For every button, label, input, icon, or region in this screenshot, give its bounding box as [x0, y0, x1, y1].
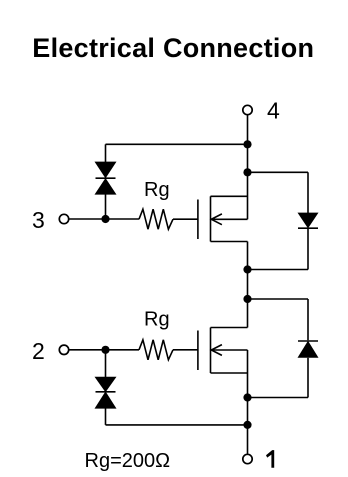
svg-text:4: 4: [267, 97, 280, 123]
wire: upper MOSFET source down through middle nodes to lower MOSFET drain: [247, 242, 249, 328]
svg-text:Rg: Rg: [144, 179, 170, 201]
wire: lower zener rail: [106, 424, 248, 426]
node: junction dot middle lower: [243, 295, 251, 303]
svg-text:2: 2: [32, 338, 45, 364]
wire: lower body-diode bottom rail: [248, 397, 309, 399]
node: junction dot at terminal-4 line / diode rail: [243, 168, 251, 176]
label pin 1: [266, 450, 274, 468]
source/bottom lead: [211, 372, 248, 374]
node: junction dot gate line 2 / zener stack: [101, 346, 109, 354]
node: junction dot lower source / diode rail: [243, 393, 251, 401]
wire: resistor to gate of lower MOSFET: [173, 349, 198, 351]
body lead with arrow: [211, 349, 247, 351]
MOSFET Q1 (upper): [198, 196, 248, 241]
node: junction dot at terminal-4 line / zener rail: [243, 140, 251, 148]
source/bottom lead: [211, 241, 248, 243]
node: junction dot lower zener rail: [243, 421, 251, 429]
wire: upper body-diode top rail: [248, 171, 309, 173]
wire: terminal 2 to gate resistor: [69, 349, 139, 351]
resistor Rg (upper): [139, 209, 173, 229]
svg-text:3: 3: [32, 207, 45, 233]
wire: lower MOSFET body/source down to terminal 1: [247, 350, 249, 454]
terminal 1: [243, 454, 252, 463]
drain/top lead: [211, 195, 248, 197]
wire: resistor to gate of upper MOSFET: [173, 218, 198, 220]
wire: upper body-diode bottom rail: [248, 269, 309, 271]
terminal 3: [59, 214, 68, 223]
terminal 2: [59, 345, 68, 354]
wire: upper gate-protection rail: [106, 143, 248, 145]
svg-text:Rg: Rg: [144, 309, 170, 331]
wire: terminal 4 down to upper MOSFET body junction: [247, 115, 249, 219]
body diode (upper): [298, 172, 319, 269]
resistor Rg (lower): [139, 340, 173, 360]
node: junction dot middle upper: [243, 265, 251, 273]
zener pair (upper gate protection): [95, 144, 117, 219]
svg-text:Electrical Connection: Electrical Connection: [32, 33, 314, 63]
wire: terminal 3 to gate resistor: [69, 218, 139, 220]
gate bar: [197, 331, 199, 371]
body diode (lower): [298, 299, 319, 398]
gate bar: [197, 200, 199, 240]
channel bar: [210, 196, 212, 241]
svg-text:Rg=200Ω: Rg=200Ω: [85, 450, 171, 472]
MOSFET Q2 (lower): [198, 328, 248, 374]
node: junction dot gate line 3 / zener stack: [101, 215, 109, 223]
body lead with arrow: [211, 218, 247, 220]
drain/top lead: [211, 327, 248, 329]
zener pair (lower gate protection): [95, 350, 117, 425]
wire: lower body-diode top rail: [248, 298, 309, 300]
channel bar: [210, 328, 212, 374]
terminal 4: [243, 105, 252, 114]
